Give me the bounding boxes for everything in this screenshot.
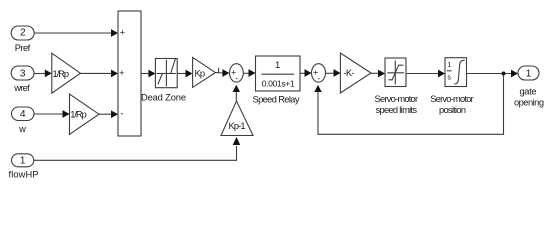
wire sum2 to gain -K- [326, 72, 335, 74]
wire saturation to integrator [406, 73, 439, 75]
svg-text:Servo-motor: Servo-motor [430, 94, 474, 104]
svg-text:Kp-1: Kp-1 [229, 121, 246, 131]
svg-text:+: + [119, 68, 124, 78]
wire Pref to Add [34, 32, 112, 34]
svg-text:w: w [18, 124, 26, 134]
svg-text:Speed Relay: Speed Relay [253, 94, 300, 104]
arrow into Dead Zone [148, 70, 155, 78]
wire -K- to saturation [371, 72, 379, 74]
wire Kp-1 to sum1 [235, 92, 237, 102]
Speed Relay fraction bar [262, 73, 295, 75]
wire Kp to sum1 [215, 72, 223, 74]
svg-text:wref: wref [13, 83, 30, 93]
arrow into gain -K- [334, 69, 341, 77]
saturation icon curve [388, 65, 403, 80]
wire Speed Relay to sum2 [300, 72, 306, 74]
outport 1 gate opening [518, 66, 539, 80]
arrow into Add bottom [111, 110, 118, 118]
dead zone icon axes [157, 73, 176, 75]
junction node [502, 72, 506, 76]
svg-text:4: 4 [20, 109, 26, 120]
arrow into sum1 bottom from Kp-1 [233, 85, 240, 92]
dead zone icon curve [158, 74, 163, 85]
inport 3 wref [11, 66, 34, 80]
arrow into sum2 left [305, 69, 312, 77]
Speed Relay block [256, 56, 301, 91]
svg-text:1: 1 [275, 60, 280, 71]
wire integrator to outport with junction [467, 73, 512, 75]
svg-text:opening: opening [514, 97, 544, 107]
svg-text:-K-: -K- [344, 68, 355, 78]
inport 2 Pref [11, 26, 34, 40]
Servo-motor position integrator block [445, 58, 467, 87]
svg-text:Dead Zone: Dead Zone [141, 93, 186, 103]
arrowheads [45, 29, 518, 145]
svg-text:1/Rp: 1/Rp [70, 110, 87, 120]
svg-text:3: 3 [20, 68, 26, 79]
svg-text:+: + [120, 28, 125, 38]
svg-text:Servo-motor: Servo-motor [375, 94, 419, 104]
arrow into sum2 bottom feedback [314, 85, 321, 92]
arrow into gain 1/Rp lower [63, 110, 70, 118]
integrator 1/s fraction bar [447, 70, 452, 72]
arrow into Kp-1 from flowHP [233, 137, 241, 145]
svg-text:s: s [447, 72, 451, 81]
arrow into outport [511, 70, 518, 78]
wire Dead Zone to Kp [177, 73, 186, 75]
gain -K- [340, 53, 371, 93]
svg-text:speed limits: speed limits [376, 105, 418, 115]
svg-text:2: 2 [20, 28, 26, 39]
tick on wire near Kp output [218, 68, 220, 73]
svg-text:position: position [439, 105, 466, 115]
gain 1/Rp (lower) [70, 94, 100, 134]
inport 1 flowHP [12, 154, 34, 167]
gain Kp [193, 57, 216, 87]
arrow into Add top [111, 29, 118, 37]
gain Kp-1 [221, 101, 253, 136]
Dead Zone block [155, 59, 177, 88]
sum1 circle [230, 64, 244, 82]
arrow into sum1 left [222, 69, 229, 77]
arrow into Add middle [111, 70, 118, 78]
svg-text:-: - [235, 73, 238, 83]
svg-text:-: - [317, 73, 320, 83]
svg-text:Pref: Pref [15, 43, 31, 53]
wire flowHP to Kp-1 [34, 146, 237, 160]
arrow into integrator [438, 70, 445, 78]
arrow into Speed Relay [249, 69, 256, 77]
saturation icon axes [387, 72, 404, 74]
arrow into gain 1/Rp upper [45, 70, 52, 78]
Add sum block [118, 11, 141, 136]
svg-text:Kp: Kp [195, 69, 206, 79]
wire lower gain to Add [99, 113, 112, 115]
svg-text:-: - [120, 109, 123, 119]
wire wref to gain 1/Rp [34, 73, 46, 75]
svg-text:1: 1 [526, 68, 532, 79]
inport 4 w [12, 107, 35, 121]
wire Add to Dead Zone [141, 73, 150, 75]
svg-text:1/Rp: 1/Rp [53, 69, 70, 79]
svg-text:gate: gate [520, 86, 537, 96]
svg-text:flowHP: flowHP [9, 170, 39, 180]
wire sum1 to Speed Relay [243, 72, 250, 74]
wire gain to Add [80, 72, 112, 74]
integrator saturated integral curve [454, 60, 464, 84]
feedback wire position to sum2 [318, 74, 504, 135]
svg-text:1: 1 [20, 156, 26, 167]
arrow into Kp [186, 70, 193, 78]
gain 1/Rp (upper) [52, 53, 81, 93]
wire w to gain 1/Rp lower [34, 113, 64, 115]
sum2 circle [312, 64, 326, 82]
arrow into saturation [378, 70, 385, 78]
svg-text:0.001s+1: 0.001s+1 [262, 79, 295, 89]
Servo-motor speed limits saturation block [385, 58, 406, 87]
svg-text:1: 1 [447, 60, 451, 69]
